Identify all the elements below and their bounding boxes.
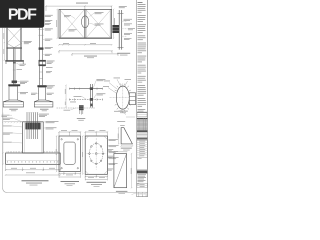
panel frame — [59, 9, 112, 38]
flange plate bottom dimensions — [85, 174, 109, 180]
small rows — [137, 133, 147, 137]
sheet number cells — [137, 192, 148, 197]
pier outline — [23, 122, 44, 153]
foundation right labels — [46, 121, 59, 129]
tower 1 label leaders — [17, 41, 24, 92]
sheet background — [0, 0, 149, 198]
stiffener top dimension — [113, 151, 127, 152]
panel antenna ellipse — [81, 16, 88, 28]
flange plate labels right — [109, 139, 119, 165]
section labels — [119, 6, 135, 40]
sheet border right — [147, 0, 149, 197]
panel top dimension text — [76, 2, 88, 5]
section pole — [119, 10, 122, 50]
foundation right label leaders — [43, 122, 45, 129]
panel label leaders — [71, 13, 94, 24]
flange side bracket — [129, 93, 135, 105]
dark company bar — [137, 170, 147, 173]
panel bottom dimension 2 — [58, 50, 112, 53]
tower 1 pole flange B — [12, 81, 17, 84]
checkbox table — [137, 140, 147, 157]
flange plate corner chamfer marks — [85, 136, 107, 174]
tower 1 X bracing — [7, 28, 21, 43]
footing rebar dots — [7, 160, 58, 163]
tower 1 title — [9, 108, 17, 111]
pier anchor hatch — [25, 123, 40, 130]
clamp label — [64, 109, 71, 112]
flange title — [118, 110, 128, 113]
rail 2 end ticks — [69, 98, 102, 100]
clamp block — [79, 105, 84, 110]
small detail rows — [137, 183, 147, 187]
gusset leader labels — [114, 110, 121, 113]
extra notes line — [138, 110, 144, 113]
section title — [117, 52, 130, 55]
panel top dimension — [45, 5, 112, 11]
base plate bottom dimensions — [58, 172, 81, 178]
flange plate label leaders — [107, 139, 108, 163]
base plate title — [61, 181, 80, 182]
footing ground hatch — [7, 151, 59, 153]
tower 1 center pole — [14, 49, 16, 85]
tower 1 beam tabs — [6, 62, 23, 64]
heading bar — [137, 138, 147, 140]
base plate left dimension — [56, 135, 57, 172]
base plate outer — [59, 136, 80, 172]
panel diagonals — [60, 10, 111, 38]
gusset triangle — [121, 128, 132, 144]
svg-text:PDF: PDF — [8, 7, 37, 24]
stiffener left labels — [108, 149, 114, 170]
footing outline — [6, 153, 61, 164]
tower 1 labels right — [17, 41, 32, 94]
pole 2 splice flange A — [39, 47, 44, 49]
flange leaders — [108, 79, 128, 93]
flange plate bolts — [89, 143, 104, 165]
pole 2 label leaders — [37, 29, 46, 93]
section pole end ticks — [118, 13, 124, 47]
pole 2 title — [40, 108, 49, 111]
flange plate top dimension — [85, 131, 109, 136]
base plate corner bolts — [61, 139, 79, 169]
anchor bolt labels above — [2, 114, 50, 117]
foundation bottom dimension 1 — [5, 165, 61, 171]
pole 2 tick marks — [39, 30, 44, 79]
mount labels — [70, 79, 105, 102]
base plate inner opening — [64, 142, 75, 164]
clamp pipe dashed line — [57, 107, 96, 109]
foundation bottom dimension 2 — [5, 174, 61, 175]
flange circle — [116, 86, 129, 109]
mount clamp C — [90, 104, 93, 107]
pole 2 splice flange B — [39, 60, 46, 66]
stiffener title — [116, 190, 128, 193]
rail 2 dashed — [69, 99, 102, 101]
flange bolt ticks — [115, 84, 131, 112]
panel side dimensions — [57, 9, 115, 39]
mount pole — [91, 84, 93, 108]
base plate top dimension — [58, 131, 81, 136]
circle centerlines — [110, 97, 138, 99]
clamp label leader — [70, 108, 75, 110]
pole 2 shaft — [39, 28, 42, 85]
anchor bolts — [26, 113, 38, 139]
stiffener diagonal — [114, 154, 127, 188]
gusset left dimension — [118, 127, 119, 145]
foundation left label leaders — [12, 118, 22, 143]
clamp title — [77, 117, 86, 120]
tower 1 pole flange A — [13, 62, 16, 63]
address text block — [138, 174, 147, 182]
rail 1 — [69, 88, 102, 90]
section leader dashes — [122, 21, 128, 36]
revision table — [137, 118, 147, 132]
tower 1 girt — [6, 48, 21, 49]
mount clamp B — [90, 98, 93, 101]
ground line left of pier — [4, 121, 23, 123]
stiffener right dimension — [131, 153, 132, 189]
pier inner lines — [24, 122, 41, 153]
notes text block — [138, 2, 147, 110]
foundation title — [22, 180, 49, 181]
panel bottom dimension 1 — [58, 44, 112, 45]
title column divider — [137, 0, 148, 197]
tower 1 base plate — [8, 84, 20, 86]
PDF badge — [0, 0, 44, 28]
tower 1 footing — [3, 100, 23, 107]
panel inner edge lines — [59, 9, 112, 38]
rail 1 end ticks — [69, 88, 102, 90]
small box above table — [137, 112, 147, 117]
pedestal 2 right dimension — [65, 85, 66, 108]
gusset bottom dimension — [120, 145, 133, 146]
flange labels — [103, 78, 131, 87]
clamp ticks below — [80, 110, 83, 114]
foundation left dimension — [2, 113, 3, 165]
tower 1 bottom beam — [5, 60, 24, 61]
mount clamp A — [90, 87, 93, 90]
tower 1 V bracing — [7, 43, 21, 47]
pole 2 pedestal — [39, 87, 46, 100]
stiffener plate — [114, 154, 127, 188]
long dimension line — [71, 53, 118, 56]
panel labels — [64, 12, 104, 31]
panel center pole — [84, 9, 86, 38]
flange plate crosshair — [87, 153, 107, 155]
pole 2 base plate — [37, 85, 46, 87]
pole 2 footing — [34, 100, 53, 107]
gusset title — [121, 147, 132, 150]
section bracket block — [112, 25, 119, 33]
tower 1 pedestal — [9, 86, 18, 100]
page curl mark bottom — [132, 193, 137, 195]
tower 1 left dimension — [4, 28, 5, 61]
mount label leaders — [82, 81, 96, 100]
flange plate outer — [85, 136, 107, 174]
sheet border left with rounded bottom corner — [3, 28, 137, 193]
foundation left labels — [3, 118, 13, 143]
tower 1 chords — [7, 28, 22, 61]
footing rebar line — [7, 160, 60, 162]
flange plate bolt circle — [89, 143, 103, 163]
long dimension text — [84, 55, 97, 58]
inter-plan dimension — [82, 135, 83, 174]
stamp box — [137, 157, 147, 169]
flange plate title — [87, 182, 107, 183]
pole 2 labels right — [31, 15, 55, 95]
